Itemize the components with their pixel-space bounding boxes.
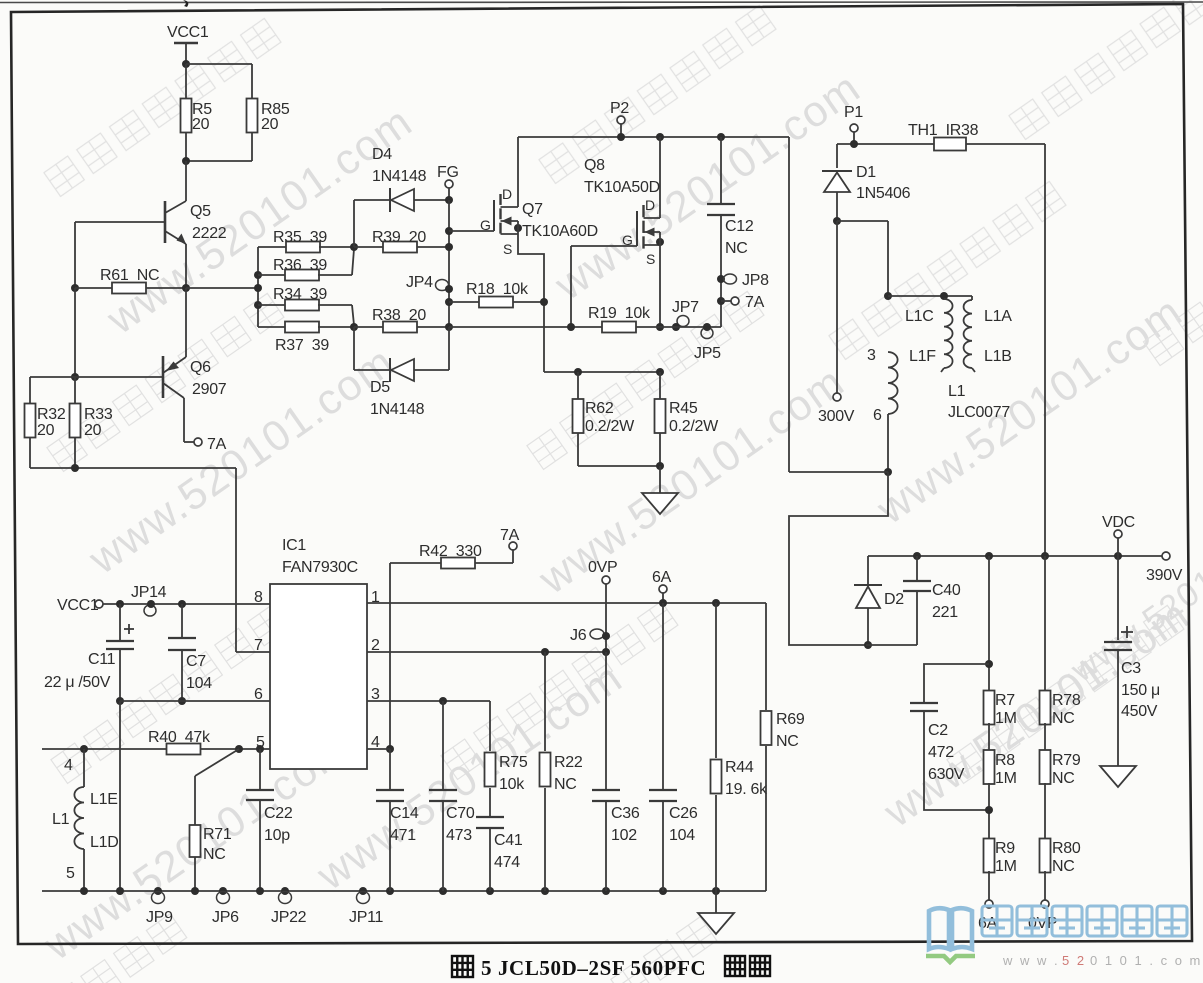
- node junction C2 top: [985, 660, 993, 668]
- svg-text:FAN7930C: FAN7930C: [282, 559, 358, 576]
- svg-text:JP11: JP11: [349, 909, 383, 926]
- wire D2 anode down: [867, 608, 869, 645]
- svg-text:1M: 1M: [995, 858, 1017, 875]
- node junction ground rail at C22: [256, 887, 264, 895]
- node junction ground rail at JP9: [154, 887, 162, 895]
- node junction C11 bottom: [116, 697, 124, 705]
- power label VCC1: [167, 24, 209, 43]
- svg-text:2222: 2222: [192, 225, 227, 242]
- svg-text:0.2/2W: 0.2/2W: [669, 418, 719, 435]
- resistor R80 (NC): [1040, 839, 1081, 876]
- inductor L1E/L1D winding: [52, 749, 118, 891]
- svg-text:7A: 7A: [745, 294, 765, 311]
- wire Q5 emitter down: [185, 244, 187, 288]
- wire R5 to collector node: [185, 132, 187, 161]
- resistor R44 (19.6k): [711, 603, 769, 891]
- svg-text:19. 6k: 19. 6k: [725, 781, 768, 798]
- svg-text:22 μ /50V: 22 μ /50V: [44, 674, 111, 691]
- svg-text:w w w .: w w w .: [1002, 953, 1060, 968]
- wire to D5: [354, 327, 390, 370]
- svg-text:R8: R8: [995, 752, 1015, 769]
- terminal VDC: [1102, 514, 1135, 556]
- svg-text:S: S: [503, 241, 512, 257]
- node junction L1 top row: [884, 292, 892, 300]
- svg-text:NC: NC: [1052, 710, 1075, 727]
- node junction C12 on rail: [717, 133, 725, 141]
- pin 5 label: [256, 734, 265, 751]
- svg-text:R18 10k: R18 10k: [466, 281, 529, 298]
- svg-text:G: G: [480, 217, 491, 233]
- svg-text:473: 473: [446, 827, 472, 844]
- svg-text:104: 104: [669, 827, 695, 844]
- node junction C22 top: [256, 745, 264, 753]
- node junction D1/300V/L1: [833, 217, 841, 225]
- svg-text:472: 472: [928, 744, 954, 761]
- svg-text:6A: 6A: [652, 569, 672, 586]
- node junction R18 right on source column: [540, 298, 548, 306]
- capacitor C14 (471): [376, 749, 419, 891]
- svg-text:VCC1: VCC1: [167, 24, 209, 41]
- node junction ground rail at C11: [116, 887, 124, 895]
- svg-text:JP9: JP9: [146, 909, 173, 926]
- wire VCC1 to pin 8: [103, 603, 271, 605]
- svg-text:R61 NC: R61 NC: [100, 267, 159, 284]
- wire R78-R79: [1044, 723, 1046, 751]
- svg-text:R71: R71: [203, 826, 232, 843]
- node junction ground rail at R22: [541, 887, 549, 895]
- resistor R34: [258, 286, 354, 325]
- svg-text:5 2: 5 2: [1062, 953, 1086, 968]
- node junction ground rail at C26: [659, 887, 667, 895]
- wire R32 bottom row: [30, 437, 236, 468]
- svg-text:20: 20: [192, 116, 210, 133]
- terminal 0VP (top): [588, 559, 617, 584]
- jumper JP11: [349, 892, 383, 927]
- resistor R61: [75, 267, 186, 294]
- terminal 6A (top): [652, 569, 672, 603]
- node junction Q8 drain on rail: [656, 133, 664, 141]
- svg-text:VCC1: VCC1: [57, 597, 99, 614]
- wire R85 to collector node: [186, 132, 252, 161]
- svg-text:TH1 IR38: TH1 IR38: [908, 122, 979, 139]
- svg-text:C2: C2: [928, 722, 948, 739]
- svg-text:C36: C36: [611, 805, 640, 822]
- svg-text:R35 39: R35 39: [273, 229, 327, 246]
- svg-text:FG: FG: [437, 164, 459, 181]
- svg-text:5 JCL50D–2SF 560PFC: 5 JCL50D–2SF 560PFC: [481, 956, 706, 980]
- svg-text:450V: 450V: [1121, 703, 1158, 720]
- svg-text:10k: 10k: [499, 776, 525, 793]
- node junction gate branch Q7: [445, 227, 453, 235]
- svg-text:P1: P1: [844, 104, 863, 121]
- wire Q5 base to left column: [74, 222, 76, 288]
- svg-text:R22: R22: [554, 754, 583, 771]
- svg-text:C26: C26: [669, 805, 698, 822]
- svg-text:TK10A60D: TK10A60D: [522, 223, 598, 240]
- node junction P2 on rail: [617, 133, 625, 141]
- jumper J6: [570, 627, 610, 644]
- capacitor C36 (102): [592, 652, 640, 891]
- node junction R35/R36/R39/D4: [350, 243, 358, 251]
- terminal 300V: [818, 393, 855, 425]
- wire Q6 base row: [30, 377, 163, 404]
- node junction R33 bottom: [71, 437, 79, 472]
- resistor R42 (330): [390, 543, 513, 569]
- svg-text:0 1 0 1 . c o m: 0 1 0 1 . c o m: [1090, 953, 1202, 968]
- svg-text:JP6: JP6: [212, 909, 239, 926]
- svg-text:R42 330: R42 330: [419, 543, 482, 560]
- capacitor C22 (10p): [246, 749, 293, 891]
- svg-text:102: 102: [611, 827, 637, 844]
- node junction C3/VDC on bus: [1114, 552, 1122, 560]
- wire C12 to JP8: [720, 215, 722, 301]
- svg-text:JP5: JP5: [694, 345, 721, 362]
- node junction R38 right: [445, 323, 453, 331]
- wire to D4: [354, 200, 390, 247]
- jumper JP14: [131, 584, 167, 616]
- jumper JP6: [212, 892, 239, 927]
- transistor Q8 (MOSFET TK10A50D): [584, 157, 660, 267]
- resistor R78 (NC): [1040, 691, 1081, 728]
- ground symbol below R45: [642, 466, 678, 514]
- label 4: [64, 757, 73, 774]
- svg-text:R69: R69: [776, 711, 805, 728]
- svg-text:R40 47k: R40 47k: [148, 729, 211, 746]
- jumper JP22: [271, 892, 307, 927]
- node junction cluster / R61 row: [254, 284, 262, 292]
- wire C12 column from rail: [720, 137, 722, 204]
- svg-text:R7: R7: [995, 692, 1015, 709]
- svg-text:R80: R80: [1052, 840, 1081, 857]
- terminal VCC1 (IC): [57, 597, 103, 614]
- node junction P1 on rail: [850, 140, 858, 148]
- svg-text:300V: 300V: [818, 408, 855, 425]
- node junction C2 bottom / R8-R9: [985, 783, 993, 840]
- svg-text:D1: D1: [856, 164, 876, 181]
- wire R78 column top: [1044, 556, 1046, 692]
- svg-text:C14: C14: [390, 805, 419, 822]
- node junction 6A/pin1 rail: [659, 599, 667, 607]
- svg-text:104: 104: [186, 675, 212, 692]
- svg-text:L1: L1: [948, 383, 966, 400]
- wire Q7 source to R18 column: [518, 234, 544, 372]
- terminal 7A (R42): [500, 527, 520, 563]
- wire junction to L1 pin3 column: [837, 221, 888, 296]
- node junction R39 right: [445, 243, 453, 251]
- svg-text:L1F: L1F: [909, 348, 936, 365]
- wire R42 column to pin 4: [389, 563, 391, 749]
- svg-text:6: 6: [873, 407, 882, 424]
- svg-text:C41: C41: [494, 832, 523, 849]
- node junction ground rail at C36: [602, 887, 610, 895]
- diode D5 (1N4148): [370, 327, 449, 418]
- svg-text:471: 471: [390, 827, 416, 844]
- node junction Q6 base row / R33: [71, 373, 79, 381]
- svg-text:JP4: JP4: [406, 274, 433, 291]
- svg-text:JP22: JP22: [271, 909, 307, 926]
- svg-text:20: 20: [37, 422, 55, 439]
- svg-text:20: 20: [261, 116, 279, 133]
- svg-text:221: 221: [932, 604, 958, 621]
- node junction C11 top: [116, 600, 124, 608]
- svg-text:JP8: JP8: [742, 272, 769, 289]
- wire R7-R8: [988, 723, 990, 751]
- wire VCC1 bar to junction: [185, 43, 187, 64]
- resistor R9 (1M): [984, 839, 1017, 876]
- node junction R7 column on VDC bus: [985, 552, 993, 560]
- inductor L1 pin3-pin6 winding: [867, 347, 898, 424]
- node junction C40 on VDC bus: [913, 552, 921, 560]
- terminal 7A (Q6): [194, 436, 227, 453]
- svg-text:Q6: Q6: [190, 359, 211, 376]
- ground symbol (bottom rail): [698, 891, 734, 934]
- node junction ground rail at C70: [439, 887, 447, 895]
- wire rail to Q7 drain: [517, 137, 519, 207]
- wire D2 column from VDC bus: [867, 556, 869, 584]
- svg-text:TK10A50D: TK10A50D: [584, 179, 660, 196]
- svg-text:R37 39: R37 39: [275, 337, 329, 354]
- svg-text:R79: R79: [1052, 752, 1081, 769]
- node junction L1C top: [940, 292, 948, 300]
- capacitor C2 (472/630V): [910, 664, 989, 810]
- wire node to Q5 collector: [185, 161, 187, 201]
- jumper JP9: [146, 892, 173, 927]
- resistor R33: [70, 377, 113, 439]
- pin 6 label: [254, 686, 263, 703]
- svg-text:1N4148: 1N4148: [370, 401, 425, 418]
- node junction ground rail at C14: [386, 887, 394, 895]
- capacitor C11 (22u/50V): [44, 604, 134, 701]
- capacitor C40 (221): [903, 556, 961, 645]
- wire R19 row: [449, 326, 602, 328]
- node junction D2 bottom: [864, 641, 872, 649]
- jumper JP8: [717, 272, 769, 289]
- capacitor C41 (474): [476, 817, 523, 891]
- svg-text:150 μ: 150 μ: [1121, 682, 1160, 699]
- svg-text:L1D: L1D: [90, 834, 118, 851]
- svg-text:IC1: IC1: [282, 537, 306, 554]
- node junction ground rail at JP22: [281, 887, 289, 895]
- svg-text:5: 5: [66, 865, 75, 882]
- resistor R35: [258, 229, 354, 253]
- svg-text:3: 3: [867, 347, 876, 364]
- transistor Q7 (MOSFET TK10A60D): [449, 186, 598, 257]
- node junction L1 pin6 / PFC rail riser: [884, 468, 892, 476]
- svg-text:R34 39: R34 39: [273, 286, 327, 303]
- wire pin 3 row: [367, 700, 490, 702]
- svg-text:Q8: Q8: [584, 157, 605, 174]
- svg-text:630V: 630V: [928, 766, 965, 783]
- wire pin 4 stub: [367, 748, 390, 750]
- svg-text:C11: C11: [88, 651, 116, 668]
- resistor R32: [25, 404, 66, 440]
- capacitor C7 (104): [168, 604, 212, 701]
- svg-text:390V: 390V: [1146, 567, 1183, 584]
- svg-text:C7: C7: [186, 653, 206, 670]
- resistor R18: [449, 281, 544, 308]
- terminal 390V: [1146, 552, 1183, 584]
- transistor Q6 (PNP 2907): [163, 356, 227, 398]
- pin 3 label: [371, 686, 380, 703]
- svg-text:C70: C70: [446, 805, 475, 822]
- svg-text:D: D: [502, 186, 512, 202]
- resistor R40 (47k): [148, 729, 270, 755]
- svg-text:NC: NC: [725, 240, 748, 257]
- svg-text:1M: 1M: [995, 710, 1017, 727]
- page top edge line: [0, 0, 1203, 7]
- wire L1 to D2/C40 loop (Z path): [789, 472, 888, 645]
- jumper JP4: [406, 274, 453, 293]
- caption: 图 5 JCL50D-2SF 560PFC 电路: [452, 956, 770, 980]
- svg-text:L1E: L1E: [90, 791, 118, 808]
- wire L1 top row: [888, 295, 972, 297]
- svg-text:7A: 7A: [500, 527, 520, 544]
- terminal 0VP (R80 bottom): [1028, 871, 1057, 932]
- capacitor C12 (NC): [707, 204, 754, 257]
- wire cluster left column: [257, 247, 259, 327]
- pin 8 label: [254, 589, 263, 606]
- svg-text:7A: 7A: [207, 436, 227, 453]
- jumper JP7: [636, 299, 721, 331]
- wire FG column: [448, 200, 450, 327]
- svg-text:C22: C22: [264, 805, 293, 822]
- wire R62 bottom to R45 bottom: [578, 465, 660, 467]
- svg-text:L1A: L1A: [984, 308, 1012, 325]
- jumper JP5: [694, 323, 721, 362]
- node junction VCC1/R5/R85: [182, 60, 190, 68]
- wire VDC bus: [868, 555, 1162, 557]
- wire R7 column top: [988, 556, 990, 692]
- wire pin 2 row: [367, 651, 606, 653]
- node junction R45/R62 bottom: [656, 462, 664, 470]
- node junction R61 left: [71, 284, 79, 292]
- svg-text:J6: J6: [570, 627, 587, 644]
- svg-text:R36 39: R36 39: [273, 257, 327, 274]
- pin 7 label: [254, 637, 263, 654]
- wire D2/C40 bottom link: [866, 644, 917, 646]
- node junction R34/R37/R38/D5: [350, 323, 358, 331]
- node junction R34 left: [254, 301, 262, 309]
- wire R40 input row: [42, 748, 167, 750]
- node junction R71 riser: [235, 745, 243, 753]
- node junction R5/R85/Q5 collector: [182, 157, 190, 165]
- resistor R69 (NC): [761, 603, 805, 891]
- node junction R78 column on VDC bus: [1041, 552, 1049, 560]
- node junction ground rail at JP6: [219, 887, 227, 895]
- node junction L1E top: [80, 745, 88, 753]
- svg-text:R45: R45: [669, 400, 698, 417]
- terminal FG: [437, 164, 459, 188]
- wire D1 anode to junction: [836, 192, 838, 221]
- resistor R37: [258, 322, 354, 355]
- node junction C70 top: [439, 697, 447, 705]
- svg-text:P2: P2: [610, 100, 629, 117]
- wire C11 column to ground rail: [119, 701, 121, 891]
- svg-text:1M: 1M: [995, 770, 1017, 787]
- capacitor C70 (473): [429, 701, 475, 891]
- wire R61 row to resistor cluster: [186, 287, 258, 289]
- capacitor C3 (150u/450V): [1104, 556, 1160, 766]
- wire rail to D1: [836, 144, 838, 168]
- svg-text:NC: NC: [776, 733, 799, 750]
- svg-text:L1: L1: [52, 811, 70, 828]
- wire VCC1 junction down to R5: [185, 64, 187, 99]
- wire junction to R85 branch: [186, 64, 252, 99]
- wire left column to Q6 base row: [74, 288, 76, 377]
- wire R79-R80: [1044, 783, 1046, 840]
- node junction 0VP/pin2: [602, 648, 610, 656]
- svg-text:C3: C3: [1121, 660, 1141, 677]
- svg-text:L1B: L1B: [984, 348, 1012, 365]
- wire R71 riser: [195, 749, 239, 825]
- label L1 JLC0077: [948, 383, 1010, 421]
- node junction Q8 source / R19: [656, 323, 664, 331]
- svg-text:20: 20: [84, 422, 102, 439]
- resistor R85: [247, 99, 290, 134]
- svg-text:D2: D2: [884, 591, 904, 608]
- svg-text:1N4148: 1N4148: [372, 168, 427, 185]
- wire rail to Q8 drain: [659, 137, 661, 218]
- wire source column to R62 row: [544, 371, 660, 373]
- svg-text:0VP: 0VP: [588, 559, 617, 576]
- svg-text:R38 20: R38 20: [372, 307, 426, 324]
- resistor R39: [354, 229, 449, 253]
- svg-text:VDC: VDC: [1102, 514, 1135, 531]
- svg-text:4: 4: [64, 757, 73, 774]
- resistor R38: [354, 307, 449, 333]
- svg-text:1N5406: 1N5406: [856, 185, 911, 202]
- svg-text:R19 10k: R19 10k: [588, 305, 651, 322]
- node junction R22 top: [541, 648, 549, 656]
- wire Q6 collector to 7A terminal: [184, 398, 194, 442]
- svg-text:JP14: JP14: [131, 584, 167, 601]
- node junction ground rail at R71: [191, 887, 199, 895]
- svg-text:NC: NC: [1052, 858, 1075, 875]
- resistor R7 (1M): [984, 691, 1017, 728]
- svg-text:R9: R9: [995, 840, 1015, 857]
- resistor R36: [258, 249, 354, 281]
- wire top rail right riser: [789, 137, 888, 472]
- svg-text:S: S: [646, 251, 655, 267]
- wire Q5 emitter to Q6: [185, 288, 187, 357]
- svg-text:C40: C40: [932, 582, 961, 599]
- svg-text:R62: R62: [585, 400, 614, 417]
- diode D4 (1N4148): [372, 146, 449, 212]
- node junction Q8 body-source: [656, 232, 664, 246]
- node junction pin4/C14/R42: [386, 745, 394, 753]
- svg-text:NC: NC: [554, 776, 577, 793]
- node junction C7 top: [178, 600, 186, 608]
- node junction Q5 emitter / R61: [182, 284, 190, 292]
- svg-text:C12: C12: [725, 218, 754, 235]
- svg-text:Q7: Q7: [522, 201, 543, 218]
- IC U1 FAN7930C: [270, 537, 367, 769]
- svg-text:D5: D5: [370, 379, 390, 396]
- node junction R45 top: [656, 368, 664, 376]
- wire pin 6 row: [120, 700, 270, 702]
- svg-text:R75: R75: [499, 754, 528, 771]
- node junction R44 top: [712, 599, 720, 607]
- inductor L1C/L1F winding: [905, 299, 953, 372]
- terminal 7A (C12 column): [717, 294, 765, 311]
- svg-text:NC: NC: [203, 846, 226, 863]
- node junction ground rail at L1D: [80, 887, 88, 895]
- resistor R75 (10k): [485, 701, 528, 817]
- wire TH1 right riser: [1044, 144, 1046, 556]
- node junction C7 bottom: [178, 697, 186, 705]
- svg-text:R33: R33: [84, 406, 113, 423]
- resistor R71 (NC): [190, 825, 232, 891]
